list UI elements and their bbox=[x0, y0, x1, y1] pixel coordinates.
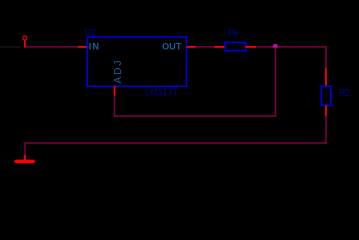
svg-text:IN: IN bbox=[89, 42, 100, 52]
svg-text:OUT: OUT bbox=[162, 42, 182, 52]
svg-text:R2: R2 bbox=[339, 87, 350, 99]
svg-text:Re: Re bbox=[229, 26, 240, 38]
svg-text:ADJ: ADJ bbox=[113, 61, 124, 84]
svg-text:LM317T: LM317T bbox=[145, 87, 178, 99]
svg-text:U2: U2 bbox=[85, 27, 96, 37]
